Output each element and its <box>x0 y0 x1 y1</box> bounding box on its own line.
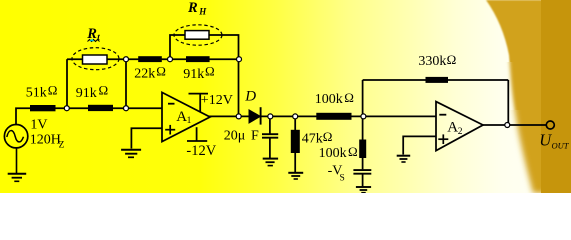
wire capacitor branch <box>269 116 271 133</box>
wire A1 output line <box>209 115 436 117</box>
svg-text:Ω: Ω <box>48 82 58 97</box>
node top rail left <box>124 57 129 62</box>
svg-text:91k: 91k <box>76 86 97 101</box>
resistor 51k <box>30 105 56 111</box>
wire +12V bar <box>189 93 209 95</box>
node main-91k/A1 junction <box>124 106 129 111</box>
svg-text:-12V: -12V <box>186 143 216 159</box>
svg-text:2: 2 <box>458 127 463 137</box>
capacitor -Vs bypass <box>353 170 371 174</box>
wire Rt branch right vertical <box>125 59 127 108</box>
svg-text:A: A <box>176 109 187 125</box>
wire Rt branch left vertical <box>66 59 68 108</box>
wire 100k to -Vs node <box>362 158 364 170</box>
A2 plus sign <box>438 134 448 144</box>
ground under -Vs cap <box>356 187 371 193</box>
op-amp A2 <box>436 102 483 151</box>
wire +12V stem <box>199 94 201 112</box>
wire source to ground <box>16 148 18 173</box>
cyan mark <box>90 40 93 42</box>
node diode cathode junction <box>268 114 273 119</box>
ac source V1 <box>4 125 27 148</box>
resistor 330k <box>426 77 449 83</box>
svg-text:330k: 330k <box>418 54 446 69</box>
node top rail right <box>237 57 242 62</box>
node 47k junction <box>293 114 298 119</box>
svg-text:Ω: Ω <box>344 90 354 105</box>
wire -Vs cap to ground <box>362 175 364 187</box>
dashed ellipse around Rt <box>72 48 119 70</box>
svg-text:1: 1 <box>187 116 192 126</box>
wire A2 output <box>483 124 547 126</box>
svg-text:U: U <box>539 131 552 150</box>
svg-text:F: F <box>251 129 259 144</box>
A1 minus sign <box>168 103 175 105</box>
svg-text:120H: 120H <box>30 132 61 147</box>
svg-text:S: S <box>340 173 345 183</box>
svg-text:Ω: Ω <box>156 63 166 78</box>
svg-text:1V: 1V <box>30 118 47 133</box>
resistor 91k input <box>88 105 113 111</box>
svg-text:Ω: Ω <box>99 83 109 98</box>
resistor RH box <box>185 31 209 40</box>
dashed ellipse around RH <box>174 25 222 45</box>
resistor Rt box <box>83 55 108 64</box>
diode cathode bar <box>260 107 262 124</box>
node A2 output junction <box>505 123 510 128</box>
wire A2 plus input <box>403 136 436 154</box>
svg-text:Ω: Ω <box>348 144 358 159</box>
wire capacitor to ground <box>269 138 271 158</box>
svg-text:22k: 22k <box>134 67 155 82</box>
svg-text:Ω: Ω <box>323 129 333 144</box>
resistor 100k vertical <box>359 140 366 159</box>
resistor 47k <box>291 130 300 153</box>
ground under A2 plus <box>397 156 411 162</box>
node main-51k/91k junction <box>64 106 69 111</box>
svg-text:A: A <box>447 120 458 136</box>
svg-text:100k: 100k <box>319 146 347 161</box>
wire RH branch <box>170 35 239 59</box>
ground under source <box>8 174 27 182</box>
svg-text:91k: 91k <box>183 67 204 82</box>
diode D <box>249 110 260 123</box>
ground under 47k <box>288 173 303 179</box>
node A1 output junction <box>236 114 241 119</box>
A2 minus sign <box>439 114 446 116</box>
svg-text:+12V: +12V <box>201 93 233 108</box>
wire top rail <box>67 58 239 60</box>
A1 plus sign <box>165 125 175 135</box>
wire 330k feedback right drop <box>507 80 509 125</box>
wire feedback drop to output <box>238 59 240 116</box>
svg-text:47k: 47k <box>302 131 323 146</box>
svg-text:100k: 100k <box>315 92 343 107</box>
wire 47k branch top <box>294 116 296 130</box>
svg-text:Ω: Ω <box>205 63 215 78</box>
op-amp A1 <box>162 92 210 141</box>
svg-text:20μ: 20μ <box>224 129 246 144</box>
svg-text:OUT: OUT <box>552 141 570 151</box>
svg-text:51k: 51k <box>26 86 47 101</box>
resistor 22k <box>138 56 162 62</box>
gold right strip <box>541 0 571 193</box>
capacitor 20uF <box>262 134 278 138</box>
wire 330k feedback left drop <box>362 80 364 116</box>
wire A1 plus input <box>131 128 162 148</box>
wire AC source to main line <box>16 108 162 125</box>
output terminal <box>546 121 554 129</box>
resistor 91k feedback <box>186 56 210 62</box>
resistor 100k series <box>316 113 351 120</box>
wavy underline mark <box>88 40 100 42</box>
wire 100k vertical branch <box>362 116 364 139</box>
ground under capacitor <box>263 159 278 166</box>
wire -12V stem <box>196 127 198 141</box>
node A2 inverting input <box>361 114 366 119</box>
wire 330k feedback rail <box>363 79 509 81</box>
wire -12V bar <box>187 140 207 142</box>
ground under A1 plus <box>121 150 141 158</box>
svg-text:R: R <box>187 0 198 16</box>
svg-text:Z: Z <box>59 140 65 150</box>
svg-text:Ω: Ω <box>447 52 457 67</box>
svg-text:D: D <box>244 89 256 105</box>
node 22k/91k junction <box>168 57 173 62</box>
wire 47k to ground <box>294 153 296 172</box>
svg-text:H: H <box>198 6 207 16</box>
